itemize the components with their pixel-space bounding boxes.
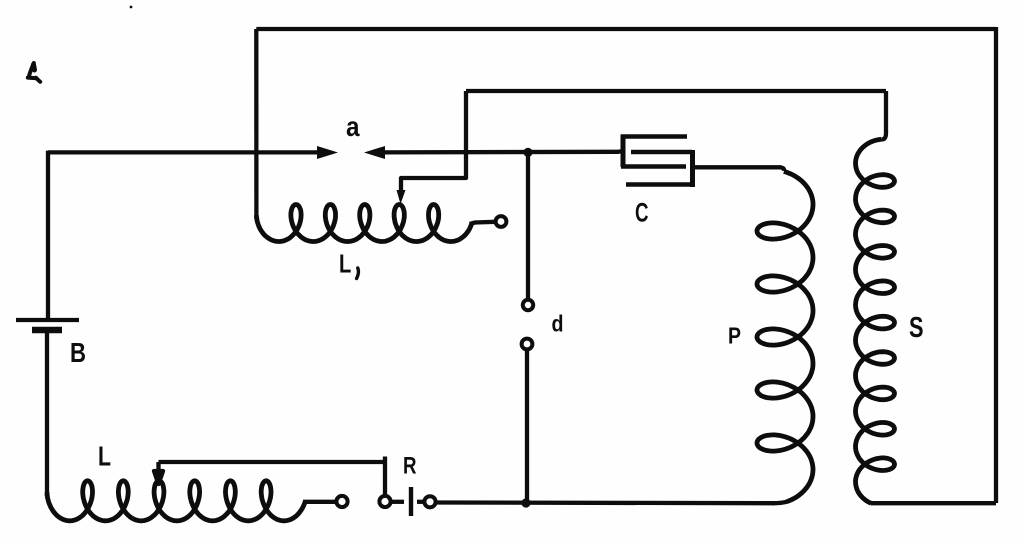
terminal: open circle at coil L1 output bbox=[496, 216, 507, 227]
capacitor C top plate bbox=[621, 134, 687, 139]
svg-text:R: R bbox=[403, 453, 417, 480]
terminal: upper open circle of gap d bbox=[523, 300, 533, 310]
svg-text:B: B bbox=[70, 337, 86, 368]
terminal: lower open circle of gap d bbox=[522, 339, 533, 350]
terminal: open circle at coil L output bbox=[336, 496, 347, 507]
wire: from spark gap a to capacitor C left terminal bbox=[380, 150, 619, 155]
wire: vertical from second top wire down, jog left toward L1 tap bbox=[401, 91, 466, 192]
wire: key right link bbox=[417, 500, 424, 504]
svg-text:a: a bbox=[346, 111, 360, 142]
inductor L1 coil bbox=[257, 205, 472, 242]
label L1 subscript comma bbox=[357, 268, 359, 279]
svg-text:S: S bbox=[909, 312, 924, 344]
wire: bottom horizontal from key to P coil bottom bbox=[436, 500, 775, 505]
battery B long thin plate bbox=[16, 318, 79, 322]
svg-text:C: C bbox=[635, 198, 649, 228]
stray ink speck bbox=[130, 6, 133, 9]
wire: from battery down to coil L bbox=[45, 330, 49, 496]
wire: vertical from top wire down into L1 left end bbox=[254, 29, 258, 219]
wire: d branch lower segment down to bottom wire bbox=[525, 350, 529, 503]
transformer primary P coil bbox=[757, 171, 813, 501]
wire: main horizontal from battery branch to spark gap a (left electrode) bbox=[48, 150, 322, 154]
capacitor C second plate (right side) bbox=[631, 150, 692, 155]
capacitor C left bus bar bbox=[621, 135, 626, 168]
wire: vertical from second top wire down to S coil top bbox=[882, 91, 886, 139]
arrow: tap arrowhead onto coil L1 bbox=[397, 190, 406, 204]
wire: tap line over coil L with corner down to key bbox=[159, 457, 386, 496]
wire: d branch upper segment from junction dot down to upper contact bbox=[526, 152, 530, 299]
svg-text:P: P bbox=[728, 323, 741, 349]
wire: bottom horizontal from S coil bottom to right edge bbox=[871, 501, 997, 505]
key R contact bar bbox=[409, 487, 413, 516]
terminal: open circle left side of key R bbox=[379, 496, 390, 507]
svg-text:d: d bbox=[552, 311, 564, 337]
wire: right edge vertical bbox=[994, 27, 998, 503]
battery B short thick plate bbox=[32, 327, 62, 334]
wire: left vertical from main wire down to battery bbox=[46, 151, 50, 318]
terminal: open circle right side of key R bbox=[424, 496, 435, 507]
wire: P coil bottom joining bottom wire bbox=[772, 502, 787, 504]
node: junction dot where d branch meets bottom wire bbox=[521, 498, 530, 507]
capacitor C right bus bar bbox=[690, 150, 695, 187]
svg-text:L: L bbox=[339, 249, 351, 279]
wire: capacitor C right terminal to P coil top bbox=[695, 167, 784, 171]
inductor L coil bbox=[47, 481, 305, 521]
wire: coil L1 right terminal lead bbox=[470, 222, 495, 224]
capacitor C third plate (left side) bbox=[621, 164, 686, 169]
svg-text:L: L bbox=[98, 441, 111, 472]
wire: second top horizontal (tap feed) bbox=[466, 89, 886, 93]
capacitor C bottom plate bbox=[626, 182, 694, 187]
wire: coil L right terminal lead bbox=[303, 500, 336, 504]
capacitor C left wire stub into left bus bar bbox=[619, 149, 623, 153]
wire: top horizontal from node above L1 to top right corner bbox=[256, 27, 996, 31]
arrow: spark gap left-pointing arrowhead bbox=[364, 146, 385, 159]
arrow: spark gap right-pointing arrowhead bbox=[317, 146, 338, 159]
wire: key left link bbox=[391, 500, 404, 504]
transformer secondary S coil bbox=[856, 139, 895, 503]
figure number 4 bbox=[28, 63, 40, 82]
arrow: tap arrowhead onto coil L bbox=[154, 462, 163, 484]
node: junction dot at d branch on capacitor feed wire bbox=[523, 148, 532, 157]
